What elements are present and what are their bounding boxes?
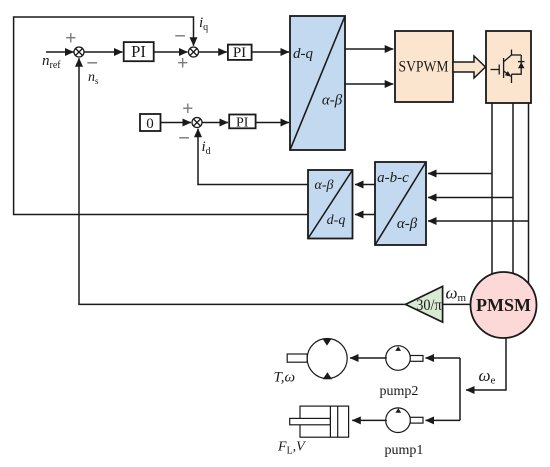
wire phase A from inverter (491, 103, 493, 275)
IGBT top connector wire (512, 54, 522, 56)
wire pump2 to motor (350, 357, 387, 359)
svg-text:T,ω: T,ω (274, 370, 296, 386)
PI controller PI3 (229, 115, 255, 131)
pump2 (386, 346, 423, 371)
alpha-beta to dq transform block U3 (308, 170, 353, 239)
wire i_q feedback loop (14, 17, 308, 215)
svg-text:SVPWM: SVPWM (399, 59, 449, 76)
svg-text:PMSM: PMSM (476, 295, 531, 315)
wire PI1 to S2 (154, 51, 188, 53)
wire dq block to SVPWM lower (345, 83, 393, 85)
summing junction S1 (74, 47, 84, 57)
svg-text:PI: PI (233, 45, 246, 61)
SVPWM block (395, 31, 453, 102)
inverter block (486, 31, 531, 103)
svg-text:α-β: α-β (397, 216, 418, 232)
wire to pump1 (426, 419, 461, 421)
IGBT body bar (503, 58, 505, 78)
wire U2 to U3 upper (355, 184, 375, 186)
wire current tap A (428, 173, 492, 175)
svg-text:PI: PI (236, 116, 249, 131)
gain block 30/pi (406, 286, 443, 322)
hydraulic motor M1 (287, 339, 347, 380)
abc to alpha-beta transform block U2 (375, 162, 426, 245)
IGBT gate bar (498, 65, 500, 75)
IGBT collector lead (504, 50, 512, 62)
pump1 (386, 408, 423, 433)
block arrow SVPWM to inverter (453, 56, 486, 78)
wire pump feed vertical (459, 358, 461, 420)
PMSM motor (471, 272, 537, 338)
wire current tap C (428, 220, 529, 222)
svg-text:α-β: α-β (322, 93, 343, 109)
wire PMSM to gain block (443, 303, 471, 305)
wire U2 to U3 lower (355, 214, 375, 216)
svg-text:+: + (177, 53, 188, 74)
diode D1 cathode bar (518, 61, 525, 63)
wire S3 to PI3 (202, 122, 228, 124)
wire dq block to SVPWM upper (345, 48, 393, 50)
svg-text:a-b-c: a-b-c (377, 170, 409, 186)
svg-text:PI: PI (131, 42, 146, 61)
wire i_d feedback loop (198, 129, 308, 185)
wire S2 to PI2 (199, 51, 227, 53)
svg-text:−: − (178, 128, 190, 150)
zero reference box (140, 114, 161, 132)
wire PI3 to dq block (256, 122, 289, 124)
svg-text:α-β: α-β (315, 178, 334, 193)
wire n_ref input (46, 51, 74, 53)
wire phase C from inverter (528, 103, 530, 285)
wire to pump2 (426, 357, 461, 359)
summing junction S3 (192, 118, 202, 128)
wire omega_e from PMSM (466, 338, 506, 390)
svg-text:d-q: d-q (327, 213, 346, 228)
svg-text:0: 0 (146, 116, 154, 132)
wire current tap B (428, 197, 513, 199)
wire S1 to PI1 (84, 51, 123, 53)
wire speed feedback loop (79, 58, 406, 304)
svg-text:pump2: pump2 (380, 384, 419, 399)
wire phase B from inverter (512, 103, 514, 275)
IGBT emitter with arrow (504, 71, 510, 75)
PI controller PI2 (228, 45, 252, 61)
diode branch wire (512, 55, 522, 74)
svg-text:pump1: pump1 (385, 443, 424, 458)
svg-text:+: + (65, 28, 76, 49)
IGBT emitter lead (511, 74, 513, 83)
svg-text:+: + (182, 98, 193, 119)
wire pump1 to cylinder (352, 419, 387, 421)
svg-text:d-q: d-q (293, 46, 313, 62)
dq to alpha-beta transform block U1 (290, 16, 345, 150)
hydraulic cylinder (290, 406, 349, 437)
summing junction S2 (189, 47, 199, 57)
IGBT gate lead (491, 69, 500, 71)
wire zero box to S3 (161, 122, 192, 124)
PI controller PI1 (124, 42, 154, 61)
diode D1 triangle (518, 62, 525, 68)
svg-text:30/π: 30/π (416, 297, 442, 314)
wire PI2 to dq block (252, 51, 289, 53)
svg-text:−: − (174, 25, 186, 47)
